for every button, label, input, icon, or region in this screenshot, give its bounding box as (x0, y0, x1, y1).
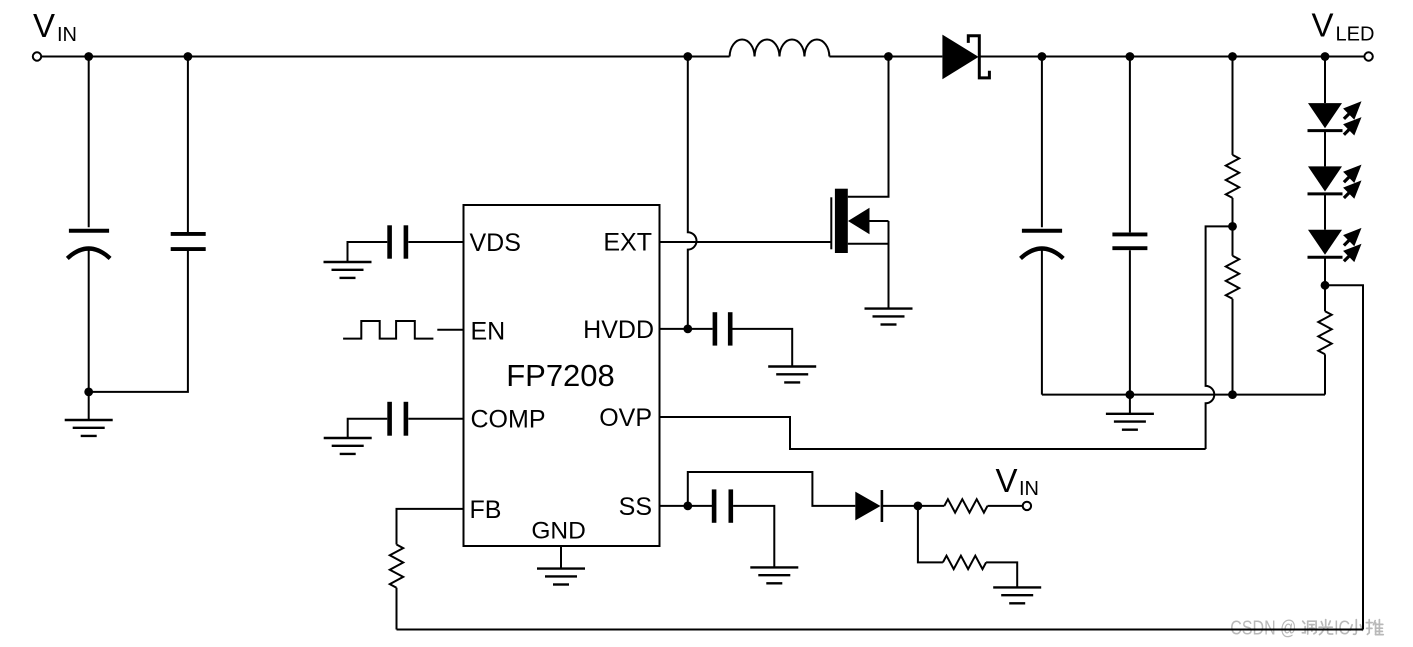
node R2 gnd junction (1228, 390, 1237, 399)
capacitor C8 output ceramic (1112, 57, 1147, 395)
resistor R2 OVP divider bottom (1226, 256, 1239, 299)
wire VDS cap to ground elbow (348, 242, 388, 262)
svg-text:EN: EN (471, 318, 506, 346)
wire top rail VIN to inductor (41, 56, 729, 58)
wire R4 to ground (986, 562, 1017, 587)
wire EXT pin to gate (660, 241, 832, 243)
glyph 调 (1302, 621, 1316, 634)
node divider mid (1228, 222, 1237, 231)
inductor L1 (730, 39, 830, 56)
svg-text:OVP: OVP (599, 404, 652, 432)
capacitor C5 on HVDD (715, 312, 730, 345)
svg-text:FB: FB (470, 496, 502, 524)
wire COMP pin stub (408, 418, 463, 420)
resistor R3 (944, 499, 987, 512)
LED D3 (1308, 101, 1362, 135)
watermark CSDN @调光IC小雅 (1230, 617, 1383, 639)
wire EN pin stub (437, 329, 463, 331)
svg-text:SS: SS (619, 493, 652, 521)
svg-text:IN: IN (1019, 478, 1039, 500)
wire FB pin to resistor (397, 509, 464, 545)
glyph 光 (1319, 620, 1333, 635)
EN square wave symbol (343, 321, 433, 339)
svg-text:CSDN @: CSDN @ (1230, 617, 1296, 639)
wire inductor to diode D1 (829, 56, 942, 58)
LED D5 (1308, 228, 1362, 262)
wire SS cap to ground (733, 506, 774, 568)
node VLED terminal (1364, 52, 1372, 60)
capacitor C6 on SS (714, 489, 731, 522)
wire mid node to R2 (1232, 226, 1234, 255)
ground COMP (324, 438, 372, 454)
resistor R_FB (390, 545, 403, 588)
junction dots on top rail (84, 52, 93, 61)
node output gnd junction (1126, 390, 1135, 399)
capacitor C7 output electrolytic (1021, 57, 1064, 395)
wire R2 to gnd rail (1232, 299, 1234, 395)
wire feedback sense to right riser (1325, 285, 1363, 629)
node D2 output junction (914, 502, 923, 511)
node LED cathode junction (1321, 281, 1330, 290)
wire R3 to VIN terminal (988, 505, 1023, 507)
ground VDS (324, 262, 372, 278)
resistor R4 (943, 556, 986, 569)
wire SS bypass jumper (688, 472, 856, 506)
wire FB resistor to bottom rail (396, 588, 398, 630)
svg-text:LED: LED (1336, 24, 1375, 46)
wire D2 to R3 (882, 505, 944, 507)
resistor R5 current sense (1318, 311, 1331, 354)
svg-text:COMP: COMP (471, 406, 546, 434)
svg-text:V: V (996, 462, 1018, 499)
wire rail to R1 (1232, 57, 1234, 155)
svg-text:V: V (1312, 7, 1334, 44)
ground HVDD (768, 367, 816, 383)
glyph 雅 (1366, 620, 1383, 635)
ground R4 (993, 587, 1041, 603)
LED D4 (1308, 165, 1362, 199)
ground SS (750, 567, 798, 583)
wire HVDD riser with hop over EXT (688, 57, 697, 329)
svg-text:IN: IN (57, 24, 77, 46)
wire sense node to R5 (1324, 285, 1326, 311)
wire LED2 to LED3 (1324, 194, 1326, 230)
diode D2 (855, 490, 882, 522)
svg-text:HVDD: HVDD (583, 316, 654, 344)
wire COMP cap to ground elbow (348, 419, 388, 438)
svg-text:GND: GND (531, 517, 585, 544)
resistor R1 OVP divider top (1226, 155, 1239, 198)
wire junction down to R4 (918, 506, 943, 563)
svg-text:FP7208: FP7208 (506, 358, 615, 393)
capacitor C2 input ceramic (89, 57, 206, 392)
wire OVP route (660, 417, 1206, 449)
node VIN dim terminal (1023, 502, 1031, 510)
wire diode to VLED (979, 56, 1364, 58)
diode D1 schottky (942, 35, 989, 80)
wire rail to LED1 (1324, 57, 1326, 104)
capacitor C4 on COMP (390, 402, 406, 436)
svg-text:EXT: EXT (603, 229, 652, 257)
node SS junction (683, 502, 692, 511)
svg-text:V: V (33, 7, 55, 44)
wire SS pin stub (660, 505, 713, 507)
ground GND pin (537, 569, 585, 585)
transistor Q1 NMOS (831, 57, 888, 309)
glyph 小 (1350, 620, 1362, 635)
capacitor C3 on VDS (390, 225, 406, 258)
wire HVDD cap to ground (733, 329, 793, 367)
wire LED1 to LED2 (1324, 131, 1326, 167)
wire stub to input ground (88, 392, 90, 420)
capacitor C1 input electrolytic (67, 57, 110, 392)
ground input (65, 420, 113, 436)
wire LED3 to sense node (1324, 257, 1326, 285)
wire GND pin stub (560, 546, 562, 569)
wire VDS pin stub (408, 241, 463, 243)
ground Q1 source (865, 309, 913, 325)
op-amp U1 FP7208 box (464, 205, 660, 546)
wire HVDD pin stub (660, 328, 713, 330)
svg-text:IC: IC (1334, 617, 1350, 639)
wire bottom feedback rail (397, 629, 1364, 631)
node VIN input terminal (33, 52, 41, 60)
wire output ground rail (1042, 394, 1325, 396)
wire OVP riser with hop over gnd rail (1206, 226, 1233, 449)
svg-text:VDS: VDS (470, 229, 521, 257)
ground output (1106, 414, 1154, 430)
wire R1 to mid node (1232, 198, 1234, 227)
wire R5 to gnd rail (1324, 354, 1326, 394)
wire stub to output ground (1129, 395, 1131, 414)
node HVDD junction (683, 325, 692, 334)
node input gnd junction (84, 388, 93, 397)
